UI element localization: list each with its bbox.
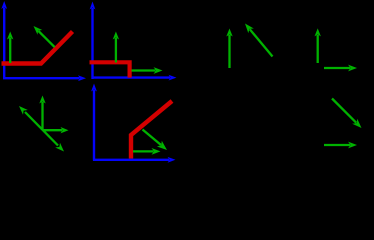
green upward vector (bottom-left star) xyxy=(39,96,45,130)
green horizontal vector (panel 4) xyxy=(133,148,161,155)
blue y-axis arrow (panel 2) xyxy=(90,2,96,80)
green rightward vector (top-right group B) xyxy=(324,65,357,72)
green upward vector (top-right group A) xyxy=(226,29,232,69)
bottom-left vector star: double-ended diagonal xyxy=(19,106,64,152)
green down-right diagonal vector (bottom-right group) xyxy=(332,99,362,129)
green up-left diagonal vector (top-right group A) xyxy=(245,24,273,57)
blue x-axis arrow (panel 2) xyxy=(92,75,177,81)
blue x-axis arrow (panel 1) xyxy=(3,75,86,81)
green upward vector (top-right group B) xyxy=(315,28,321,63)
green rightward vector (bottom-left star) xyxy=(43,127,69,133)
blue x-axis arrow (panel 4) xyxy=(93,157,176,163)
green vertical vector (panel 2) xyxy=(113,32,119,63)
red table-edge path (panel 2) xyxy=(90,62,130,77)
blue y-axis arrow (panel 1) xyxy=(1,1,7,79)
red ground-and-incline (panel 1) xyxy=(2,32,73,64)
green incline-normal vector (panel 1) xyxy=(34,26,55,47)
blue y-axis arrow (panel 4) xyxy=(91,84,97,161)
green down-slope vector (panel 4) xyxy=(143,130,168,151)
green horizontal vector (panel 2) xyxy=(132,67,163,74)
green vertical velocity vector (panel 1) xyxy=(7,32,13,64)
red wall-and-ramp path (panel 4) xyxy=(131,101,172,159)
green rightward vector (bottom-right group) xyxy=(324,142,357,149)
